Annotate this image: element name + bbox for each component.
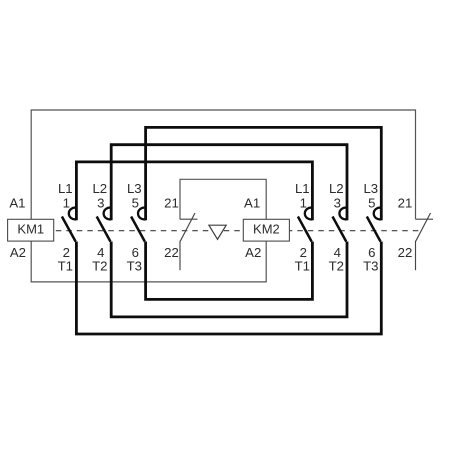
KM1 main contact pole 1 (1-2/T1): moving blade bbox=[62, 217, 76, 242]
svg-text:22: 22 bbox=[398, 245, 413, 260]
svg-text:A2: A2 bbox=[10, 245, 26, 260]
svg-text:1: 1 bbox=[63, 195, 70, 210]
svg-text:4: 4 bbox=[334, 245, 341, 260]
svg-text:21: 21 bbox=[164, 195, 179, 210]
wire: control loop from KM1 coil A2 down and across to KM2 coil A2 bbox=[31, 241, 266, 282]
svg-text:3: 3 bbox=[334, 195, 341, 210]
wire: control loop from KM1 aux terminal 21 across to KM2 coil A1 bbox=[180, 179, 266, 219]
wire: bottom crossover link KM1 terminal T1 to KM2 terminal T3 bbox=[76, 242, 381, 335]
KM1 main contact pole 3 (5-6/T3): fixed contact arc bbox=[138, 208, 146, 220]
labels L3/5 and 6/T3 for KM2 pole 3 bbox=[363, 181, 378, 274]
svg-text:KM2: KM2 bbox=[253, 222, 280, 237]
labels L2/3 and 4/T2 for KM1 pole 2 bbox=[92, 181, 107, 274]
svg-text:A2: A2 bbox=[245, 245, 261, 260]
wire: bottom crossover link KM1 terminal T2 to KM2 terminal T2 bbox=[111, 242, 347, 317]
svg-text:6: 6 bbox=[368, 245, 375, 260]
labels L3/5 and 6/T3 for KM1 pole 3 bbox=[127, 181, 142, 274]
mechanical interlock symbol (triangle) bbox=[209, 225, 226, 239]
svg-text:2: 2 bbox=[300, 245, 307, 260]
KM1 main contact pole 2 (3-4/T2): moving blade bbox=[97, 217, 111, 242]
svg-text:A1: A1 bbox=[244, 195, 260, 210]
KM1 main contact pole 3 (5-6/T3): moving blade bbox=[131, 217, 145, 242]
svg-text:2: 2 bbox=[63, 245, 70, 260]
KM2 main contact pole 2 (3-4/T2): fixed contact arc bbox=[339, 208, 347, 220]
svg-text:T2: T2 bbox=[92, 259, 107, 274]
svg-text:1: 1 bbox=[300, 195, 307, 210]
svg-text:5: 5 bbox=[132, 195, 139, 210]
svg-text:A1: A1 bbox=[9, 195, 25, 210]
wire: top link KM1 terminal 3 to KM2 terminal 3 bbox=[111, 145, 347, 221]
svg-text:L2: L2 bbox=[92, 181, 107, 196]
wire: control loop from KM1 coil A1 up and across to KM2 aux contact terminal 21 bbox=[31, 110, 415, 219]
wire: top link KM1 terminal 1 to KM2 terminal 1 bbox=[76, 162, 312, 220]
svg-text:22: 22 bbox=[164, 245, 179, 260]
KM1 main contact pole 1 (1-2/T1): fixed contact arc bbox=[69, 208, 77, 220]
KM2 auxiliary NC contact 21-22 bbox=[416, 213, 434, 270]
svg-text:T3: T3 bbox=[363, 259, 378, 274]
svg-text:L1: L1 bbox=[58, 181, 73, 196]
svg-text:T3: T3 bbox=[127, 259, 142, 274]
KM2 main contact pole 2 (3-4/T2): moving blade bbox=[333, 217, 347, 242]
KM2 main contact pole 3 (5-6/T3): moving blade bbox=[367, 217, 381, 242]
labels L2/3 and 4/T2 for KM2 pole 2 bbox=[329, 181, 344, 274]
contactor coil KM2 bbox=[243, 219, 289, 241]
svg-text:L3: L3 bbox=[127, 181, 142, 196]
svg-text:5: 5 bbox=[368, 195, 375, 210]
svg-text:21: 21 bbox=[398, 195, 413, 210]
svg-text:L1: L1 bbox=[295, 181, 310, 196]
KM2 main contact pole 1 (1-2/T1): moving blade bbox=[298, 217, 312, 242]
svg-text:T2: T2 bbox=[329, 259, 344, 274]
svg-text:3: 3 bbox=[97, 195, 104, 210]
KM2 main contact pole 1 (1-2/T1): fixed contact arc bbox=[305, 208, 313, 220]
mechanical linkage dashed line bbox=[56, 230, 421, 232]
svg-text:L3: L3 bbox=[363, 181, 378, 196]
wire: bottom crossover link KM1 terminal T3 to KM2 terminal T1 bbox=[146, 242, 313, 300]
labels L1/1 and 2/T1 for KM1 pole 1 bbox=[58, 181, 73, 274]
svg-text:L2: L2 bbox=[329, 181, 344, 196]
labels L1/1 and 2/T1 for KM2 pole 1 bbox=[295, 181, 310, 274]
KM1 main contact pole 2 (3-4/T2): fixed contact arc bbox=[104, 208, 112, 220]
svg-text:KM1: KM1 bbox=[17, 222, 44, 237]
contactor coil KM1 bbox=[8, 219, 54, 241]
svg-text:T1: T1 bbox=[58, 259, 73, 274]
wire: top link KM1 terminal 5 to KM2 terminal 5 bbox=[146, 127, 382, 220]
KM1 auxiliary NC contact 21-22 bbox=[180, 213, 198, 270]
svg-text:6: 6 bbox=[132, 245, 139, 260]
KM2 main contact pole 3 (5-6/T3): fixed contact arc bbox=[374, 208, 382, 220]
svg-text:T1: T1 bbox=[295, 259, 310, 274]
svg-text:4: 4 bbox=[97, 245, 104, 260]
